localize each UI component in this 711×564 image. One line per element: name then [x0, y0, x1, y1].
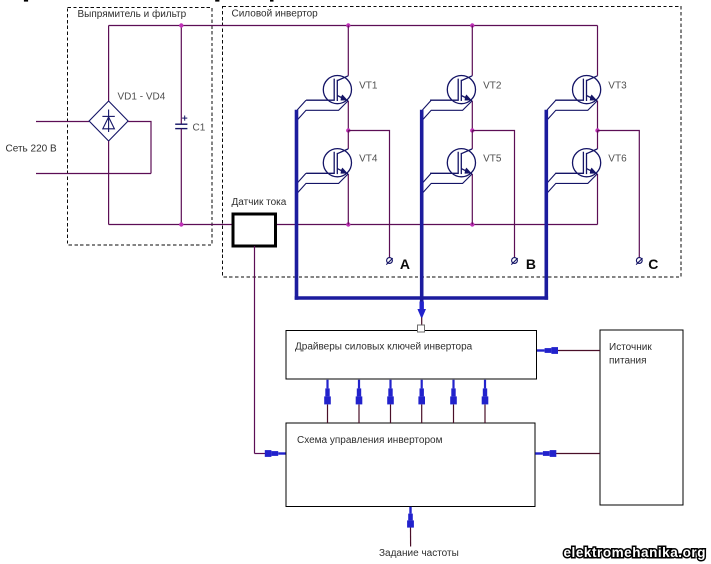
wire: control signal 3 stem	[390, 405, 392, 424]
arrow: sensor signal into control box	[265, 450, 286, 457]
svg-text:C1: C1	[193, 122, 206, 133]
svg-text:Силовой инвертор: Силовой инвертор	[232, 9, 319, 20]
transistor VT1	[306, 76, 351, 104]
junction: phase node A	[346, 128, 350, 132]
arrow: power into driver box	[537, 347, 558, 354]
transistor VT6	[555, 149, 600, 177]
svg-text:VT5: VT5	[483, 154, 502, 165]
junction: phase node C	[595, 128, 599, 132]
wire: VT1 emitter to phase node A	[347, 101, 349, 131]
wire: phase node B to output terminal B	[472, 131, 514, 258]
svg-text:Драйверы силовых ключей инверт: Драйверы силовых ключей инвертора	[295, 342, 473, 353]
wire: gate drive pair to VT2	[422, 100, 472, 119]
junction: phase A leg / DC return	[346, 222, 350, 226]
svg-text:VT6: VT6	[608, 154, 627, 165]
svg-text:VT3: VT3	[608, 81, 627, 92]
output terminal A	[386, 258, 392, 265]
wire: phase node A to output terminal A	[348, 131, 389, 258]
wire: control signal 2 stem	[358, 405, 360, 424]
arrow: control signal 1 into driver box	[324, 380, 331, 405]
wire: VT6 emitter to DC return bus	[597, 174, 599, 225]
cut-off text remnant 1	[24, 0, 28, 2]
wire: VT5 emitter to DC return bus	[471, 174, 473, 225]
wire: stem into driver port	[421, 318, 423, 326]
junction: phase B leg / DC return	[470, 222, 474, 226]
svg-text:VT2: VT2	[483, 81, 502, 92]
junction: phase A leg / DC+ bus	[346, 23, 350, 27]
wire: VT4 emitter to DC return bus	[347, 174, 349, 225]
wire: mains line 2	[36, 173, 151, 175]
transistor VT2	[430, 76, 475, 104]
wire: power supply to control box	[555, 453, 600, 455]
arrow: control signal 4 into driver box	[418, 380, 425, 405]
output terminal B	[511, 258, 517, 265]
capacitor C1	[175, 116, 187, 129]
cut-off text remnant 3	[270, 0, 274, 2]
wire: control signal 4 stem	[421, 405, 423, 424]
thick bus: gate drive bus phase C	[544, 110, 548, 300]
arrow: control signal 5 into driver box	[450, 380, 457, 405]
block: Схема управления инвертором	[286, 423, 535, 507]
wire: bridge bottom lead to DC return bus	[108, 141, 110, 225]
arrow: control signal 2 into driver box	[356, 380, 363, 405]
wire: VT2 emitter to phase node B	[471, 101, 473, 131]
wire: gate drive pair to VT1	[297, 100, 348, 119]
junction: C1 / DC return	[179, 222, 183, 226]
wire: current sensor output down	[254, 246, 256, 454]
wire: bridge right vertex to mains line 2	[128, 122, 151, 174]
svg-text:Задание частоты: Задание частоты	[379, 548, 459, 559]
port square on driver box	[418, 325, 425, 332]
block: Драйверы силовых ключей инвертора	[286, 331, 537, 380]
wire: DC+ bus to VT2 collector	[471, 26, 473, 76]
wire: current sensor output to control box	[255, 453, 266, 455]
wire: VT3 emitter to phase node C	[597, 101, 599, 131]
svg-text:B: B	[526, 256, 536, 272]
svg-text:C: C	[648, 256, 658, 272]
current sensor box	[233, 214, 276, 246]
wire: mains line 1	[36, 121, 89, 123]
transistor VT5	[430, 149, 475, 177]
svg-text:VT1: VT1	[359, 81, 378, 92]
svg-text:Схема управления инвертором: Схема управления инвертором	[297, 435, 443, 446]
wire: bridge top lead to DC+ bus	[108, 26, 110, 102]
wire: frequency setpoint stem	[410, 527, 412, 547]
svg-text:Выпрямитель и фильтр: Выпрямитель и фильтр	[78, 8, 187, 20]
svg-text:Датчик тока: Датчик тока	[232, 197, 287, 208]
wire: gate drive pair to VT3	[547, 100, 597, 119]
rectifier and filter enclosure (dashed)	[68, 8, 213, 246]
power inverter enclosure (dashed)	[223, 7, 682, 278]
thick bus: horizontal run to drivers	[295, 296, 548, 300]
wire: phase node C to VT6 collector	[597, 131, 599, 149]
cut-off text remnant 2	[215, 0, 219, 2]
block: Источник питания	[600, 330, 683, 505]
svg-text:Сеть 220 В: Сеть 220 В	[6, 144, 57, 155]
wire: gate drive pair to VT5	[422, 173, 472, 192]
wire: control signal 1 stem	[327, 405, 329, 424]
arrow: control signal 3 into driver box	[387, 380, 394, 405]
svg-text:A: A	[400, 256, 410, 272]
svg-text:питания: питания	[609, 356, 647, 367]
wire: DC+ bus to VT1 collector	[347, 26, 349, 76]
svg-text:VT4: VT4	[359, 154, 378, 165]
junction: phase node B	[470, 128, 474, 132]
junction: C1 / DC+ bus	[179, 23, 183, 27]
arrow: control signal 6 into driver box	[482, 380, 489, 405]
svg-text:elektromehanika.org: elektromehanika.org	[564, 545, 707, 560]
wire: DC return bottom bus (left of current sensor)	[109, 224, 233, 226]
wire: DC return bottom bus (right of current sensor)	[276, 224, 598, 226]
diode bridge VD1-VD4	[89, 101, 128, 141]
arrow: gate bus into driver box	[417, 309, 426, 319]
wire: control signal 5 stem	[453, 405, 455, 424]
wire: phase node B to VT5 collector	[471, 131, 473, 149]
svg-text:Источник: Источник	[609, 342, 652, 353]
svg-text:VD1 - VD4: VD1 - VD4	[118, 91, 166, 102]
transistor VT3	[555, 76, 600, 104]
wire: phase node A to VT4 collector	[347, 131, 349, 149]
junction: phase B leg / DC+ bus	[470, 23, 474, 27]
wire: power supply to driver box	[556, 350, 600, 352]
transistor VT4	[306, 149, 351, 177]
thick bus: gate drive bus phase B	[420, 110, 424, 304]
wire: gate drive pair to VT4	[297, 173, 348, 192]
wire: control signal 6 stem	[484, 405, 486, 424]
output terminal C	[636, 258, 642, 265]
arrow: frequency setpoint into control box	[407, 507, 414, 528]
thick bus: gate drive bus phase A	[295, 110, 299, 300]
wire: phase node C to output terminal C	[598, 131, 640, 258]
wire: C1 bottom lead	[180, 129, 182, 224]
wire: gate drive pair to VT6	[547, 173, 597, 192]
wire: C1 top lead	[180, 26, 182, 125]
arrow: power into control box	[535, 450, 556, 457]
wire: DC+ bus to VT3 collector	[597, 26, 599, 76]
wire: DC+ top bus	[109, 25, 598, 27]
